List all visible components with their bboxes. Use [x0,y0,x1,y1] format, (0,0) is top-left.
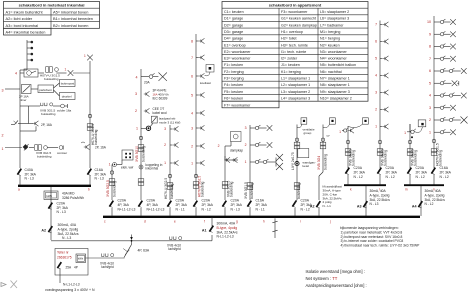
droogkast cluster [363,118,369,124]
svg-text:1: 1 [65,68,67,72]
svg-text:L3= slaapkamer 2: L3= slaapkamer 2 [281,90,310,94]
svg-text:C20A: C20A [301,199,310,203]
svg-text:L2= slaapkamer 1: L2= slaapkamer 1 [281,83,310,87]
svg-text:N - L2: N - L2 [386,175,395,179]
svg-text:3: 3 [429,106,431,110]
svg-text:buisleiding: buisleiding [44,77,59,81]
svg-text:lucht/grid: lucht/grid [168,247,181,251]
svg-text:1: 1 [2,147,4,151]
svg-text:M1= berging: M1= berging [320,30,340,34]
svg-text:H1= overloop: H1= overloop [281,30,303,34]
svg-text:N2= keuken: N2= keuken [320,43,340,47]
svg-text:300mA, 40A: 300mA, 40A [58,223,77,227]
wire: left spine [19,73,21,168]
svg-text:C1= keuken: C1= keuken [224,10,244,14]
svg-text:A2: A2 [41,229,46,233]
svg-text:1: 1 [404,131,406,135]
svg-text:N - L2: N - L2 [440,175,449,179]
svg-text:LIYY 2x0.75: LIYY 2x0.75 [291,152,295,170]
svg-text:6: 6 [375,40,377,44]
svg-text:IEC 60309: IEC 60309 [153,97,168,101]
svg-text:N - L3: N - L3 [62,236,71,240]
svg-text:N7= slaapkamer 1: N7= slaapkamer 1 [320,77,350,81]
svg-text:2P, 16A: 2P, 16A [41,123,53,127]
svg-text:cv: cv [327,134,331,138]
svg-text:buisleiding: buisleiding [41,112,56,116]
svg-text:B1= inkomhal beneden: B1= inkomhal beneden [53,16,93,21]
svg-text:A2: A2 [310,205,315,209]
svg-text:1: 1 [429,130,431,134]
wire: main feeder [51,240,212,242]
svg-text:4: 4 [15,72,17,76]
svg-text:6: 6 [429,69,431,73]
circuit tail below lamp bus [432,139,436,143]
svg-text:2: 2 [191,144,193,148]
svg-text:2P, 16A: 2P, 16A [95,146,107,150]
svg-text:XVB 3G1.5: XVB 3G1.5 [244,182,248,199]
viewer marks [1,283,6,287]
svg-text:XVB 3G4: XVB 3G4 [317,156,321,170]
svg-text:1: 1 [375,125,377,129]
svg-text:A1= inkom buitenlicht: A1= inkom buitenlicht [6,9,44,14]
svg-text:C20A: C20A [386,166,395,170]
svg-text:A5= inkomhal boven: A5= inkomhal boven [53,9,88,14]
svg-text:Isolatie weerstand [mega ohm]: Isolatie weerstand [mega ohm] : [306,269,365,274]
svg-text:schakelbord in meterkast inkom: schakelbord in meterkast inkomhal [19,3,85,8]
svg-text:B-type, 4polig: B-type, 4polig [217,226,238,230]
svg-text:B2= inkomhal boven: B2= inkomhal boven [53,23,88,28]
svg-text:A4: A4 [412,205,417,209]
svg-text:N5= buitenlicht balkon: N5= buitenlicht balkon [320,63,356,67]
feeder 30mA A4 to bus2 [420,186,422,216]
breaker C16A N-L2 [431,168,435,175]
svg-text:F5= keuken: F5= keuken [224,90,243,94]
svg-text:1: 1 [109,163,111,167]
breaker C40A left [17,169,21,176]
svg-text:C16A: C16A [440,166,449,170]
bus: meterkast board [18,185,91,187]
svg-text:timer: timer [20,98,27,102]
svg-text:contour: contour [57,151,67,155]
svg-text:N-L1-L2-L3: N-L1-L2-L3 [63,283,80,287]
row y=106 : zolder [20,105,29,107]
main switch 4P63A [131,241,133,245]
koelkast box [206,65,214,73]
svg-text:3: 3 [245,126,247,130]
RCD A1 300mA B-type [211,235,213,241]
wasmachine socket column [379,21,381,131]
svg-text:F7= woonkamer: F7= woonkamer [224,103,251,107]
branch x=410 [409,124,411,168]
svg-text:3: 3 [135,92,137,96]
svg-text:kabel wcd: kabel wcd [153,111,167,115]
svg-text:N10= slaapkamer 2: N10= slaapkamer 2 [320,96,352,100]
svg-text:XVB 5G2.5: XVB 5G2.5 [106,180,110,197]
svg-text:5: 5 [375,57,377,61]
svg-text:4P: 4P [74,266,78,270]
kWh sub meter [50,187,52,240]
svg-text:A4= inkomhal beneden: A4= inkomhal beneden [6,30,46,35]
svg-text:Net systeem : TT: Net systeem : TT [306,276,338,281]
lift motor branch x=323 [330,118,336,124]
svg-text:2P, 3kA: 2P, 3kA [416,171,428,175]
svg-text:D3= garage: D3= garage [224,30,243,34]
svg-text:buisleiding: buisleiding [230,181,234,197]
svg-text:3kA, 22.5kA²s: 3kA, 22.5kA²s [370,198,391,202]
svg-text:300mA, 40A: 300mA, 40A [217,222,236,226]
svg-text:8: 8 [191,39,193,43]
svg-text:N - L2: N - L2 [354,175,363,179]
svg-text:A1: A1 [202,229,207,233]
socket drops top-left [26,40,28,70]
svg-text:deurbel: deurbel [62,95,72,99]
svg-text:2: 2 [245,143,247,147]
svg-text:L6= slaapkamer 3: L6= slaapkamer 3 [320,17,349,21]
svg-text:2P, 3kA: 2P, 3kA [231,203,243,207]
svg-text:2P, 3kA: 2P, 3kA [256,203,268,207]
svg-text:F1= keuken: F1= keuken [224,63,243,67]
svg-text:N - L3: N - L3 [95,177,104,181]
svg-text:2P, 3kA: 2P, 3kA [202,203,214,207]
bus: sub-bus B [404,184,444,186]
svg-text:F3= woonkamer: F3= woonkamer [281,10,308,14]
svg-text:3kA, 22.5kA²s: 3kA, 22.5kA²s [425,198,446,202]
svg-text:E3= woonkamer: E3= woonkamer [224,57,251,61]
svg-text:1: 1 [84,54,86,58]
svg-text:2P, 3kA: 2P, 3kA [354,171,366,175]
svg-text:4P, 3kA: 4P, 3kA [147,203,159,207]
svg-text:N4= woonkamer: N4= woonkamer [320,57,348,61]
ventilatie groep branch x=297 [301,118,307,124]
svg-text:buisleiding: buisleiding [112,181,116,197]
svg-text:A2= licht zolder: A2= licht zolder [6,16,33,21]
svg-text:I1= tech. ruimte: I1= tech. ruimte [281,50,306,54]
lamp cluster x=250 [249,125,251,200]
svg-text:C20A: C20A [147,199,156,203]
svg-text:buisleiding: buisleiding [37,155,52,159]
svg-text:2: 2 [2,134,4,138]
svg-text:A3: A3 [357,205,362,209]
svg-text:buitenpost: buitenpost [61,82,75,86]
svg-text:N - L2: N - L2 [301,207,310,211]
svg-text:buisleiding: buisleiding [142,146,146,162]
svg-text:2P, 3kA: 2P, 3kA [386,171,398,175]
svg-text:9: 9 [429,32,431,36]
svg-text:N-L1-L2-L3: N-L1-L2-L3 [217,235,234,239]
svg-text:N - L2: N - L2 [416,175,425,179]
svg-text:7: 7 [429,57,431,61]
svg-text:1: 1 [164,161,166,165]
svg-text:j: j [329,220,331,224]
riser below bus2 x=275 [274,218,276,238]
svg-text:D1= garage: D1= garage [224,17,243,21]
svg-text:N3= woonkamer: N3= woonkamer [320,50,348,54]
right sub column x=90 [89,73,91,168]
svg-text:C20A: C20A [354,166,363,170]
svg-text:1: 1 [136,127,138,131]
svg-text:buisleiding: buisleiding [383,150,387,166]
breaker C20A [48,203,52,210]
svg-text:G2= keuken dampkap: G2= keuken dampkap [281,23,317,27]
svg-text:parlofoon: parlofoon [39,88,52,92]
koppeling in inkomhal [139,165,143,169]
svg-text:4P, 63A: 4P, 63A [138,249,150,253]
svg-text:H3= tech. ruimte: H3= tech. ruimte [281,43,308,47]
bus: apartment board [103,216,420,218]
svg-text:buisleiding: buisleiding [351,150,355,166]
svg-text:2: 2 [135,109,137,113]
svg-text:4: 4 [429,94,431,98]
svg-text:N - L1: N - L1 [176,207,185,211]
svg-text:3: 3 [191,126,193,130]
svg-text:F6= keuken: F6= keuken [224,96,243,100]
RCD A2 300mA [48,226,52,233]
svg-text:N - L1: N - L1 [256,207,265,211]
svg-text:ketel: ketel [303,164,310,168]
svg-text:buisleiding: buisleiding [170,183,174,199]
svg-text:N - L1: N - L1 [323,204,332,208]
svg-text:7: 7 [191,56,193,60]
svg-text:C16A: C16A [256,199,265,203]
svg-text:XVB 5G10: XVB 5G10 [135,146,139,162]
svg-text:E1= overloop: E1= overloop [224,43,246,47]
svg-text:1: 1 [339,130,341,134]
svg-text:L4= slaapkamer 3: L4= slaapkamer 3 [281,96,310,100]
svg-text:G1= keuken aanrecht: G1= keuken aanrecht [281,17,316,21]
svg-text:3kA, 22.5kA²s: 3kA, 22.5kA²s [58,232,79,236]
svg-text:2P, 3kA: 2P, 3kA [440,171,452,175]
svg-text:A-type, 2polig: A-type, 2polig [425,193,445,197]
svg-text:4: 4 [191,111,193,115]
svg-text:Aardspreidingsweerstand [ohm]: Aardspreidingsweerstand [ohm] : [306,283,367,288]
svg-text:N - L2: N - L2 [425,202,434,206]
svg-text:C20A: C20A [176,199,185,203]
bus: sub-bus A [344,184,386,186]
svg-text:5: 5 [191,93,193,97]
svg-text:L5= slaapkamer 2: L5= slaapkamer 2 [320,10,349,14]
svg-text:2: 2 [375,108,377,112]
svg-text:N+L1-L2-L3: N+L1-L2-L3 [118,207,136,211]
svg-text:N - L2: N - L2 [202,207,211,211]
lift feeder A2 [316,201,320,208]
svg-text:C20A: C20A [202,199,211,203]
svg-text:D2= garage: D2= garage [224,23,243,27]
svg-text:buisleiding: buisleiding [297,183,301,199]
svg-text:N+L1-L2-L3: N+L1-L2-L3 [147,207,165,211]
branch x=170 sockets [169,125,171,200]
svg-text:A-type, 2polig: A-type, 2polig [370,193,390,197]
svg-text:25A: 25A [66,266,73,270]
svg-text:N9= slaapkamer 3: N9= slaapkamer 3 [320,90,350,94]
svg-text:C20A: C20A [231,199,240,203]
svg-text:buisleiding: buisleiding [250,183,254,199]
svg-text:N - L3: N - L3 [231,207,240,211]
svg-text:2: 2 [218,144,220,148]
svg-text:1: 1 [245,160,247,164]
svg-text:2P, 3kA: 2P, 3kA [176,203,188,207]
svg-text:buisleiding: buisleiding [323,154,327,170]
svg-text:I2= zolder: I2= zolder [281,57,298,61]
svg-text:F3= berging: F3= berging [224,77,244,81]
table: schakelbord in appartement [222,2,368,108]
svg-text:2: 2 [429,118,431,122]
svg-text:3: 3 [2,89,4,93]
svg-text:e: e [174,220,176,224]
svg-text:4P, 3kA: 4P, 3kA [118,203,130,207]
svg-text:buisleiding: buisleiding [413,150,417,166]
branch x=348 [347,126,349,168]
svg-text:E2= woonkamer: E2= woonkamer [224,50,251,54]
svg-text:3kA, 22.5kA²s: 3kA, 22.5kA²s [217,230,238,234]
branch elek. verwarming x=112 [122,150,133,160]
svg-text:3: 3 [164,127,166,131]
svg-text:1: 1 [191,161,193,165]
svg-text:C20A: C20A [416,166,425,170]
svg-text:N6= nachthal: N6= nachthal [320,70,342,74]
socket column x=196 [195,34,197,200]
svg-text:F2= berging: F2= berging [224,70,244,74]
svg-text:7: 7 [375,23,377,27]
svg-text:L7= badkamer: L7= badkamer [320,23,344,27]
svg-text:F4= keuken: F4= keuken [224,83,243,87]
svg-text:L1= slaapkamer 1: L1= slaapkamer 1 [281,77,310,81]
svg-text:zolder 16a: zolder 16a [57,109,72,113]
svg-text:kWh: kWh [47,194,53,198]
svg-text:H2= toilet: H2= toilet [281,37,297,41]
svg-text:8: 8 [429,45,431,49]
svg-text:A3= bord inkomhal: A3= bord inkomhal [6,23,39,28]
svg-text:f: f [204,220,205,224]
wire: right lamp bus [433,16,435,168]
table: schakelbord in meterkast inkomhal [4,2,100,36]
svg-text:schakelbord in appartement: schakelbord in appartement [269,3,322,8]
svg-text:20A: 20A [144,80,151,84]
svg-text:J1= keuken: J1= keuken [281,63,300,67]
svg-text:2: 2 [164,143,166,147]
svg-text:d: d [144,220,146,224]
branch x=380 [379,130,381,168]
svg-text:30mA, 40A: 30mA, 40A [370,189,387,193]
svg-text:buisleiding: buisleiding [439,150,443,166]
svg-text:mode 3 (11 kW): mode 3 (11 kW) [159,120,180,124]
svg-text:10: 10 [427,20,431,24]
svg-text:Teller nr: Teller nr [57,251,70,255]
svg-text:N1= berging: N1= berging [320,37,340,41]
feeder 30mA A3 to bus2 [365,186,367,216]
svg-text:H07V-U 3G2.5: H07V-U 3G2.5 [164,178,168,199]
svg-text:C20A: C20A [118,199,127,203]
svg-text:buisleiding: buisleiding [201,181,205,197]
svg-text:dampkap: dampkap [230,149,243,153]
svg-text:lucht/grid: lucht/grid [101,265,114,269]
svg-text:kWh: kWh [78,257,84,261]
svg-text:h: h [263,220,265,224]
svg-text:a: a [18,188,20,192]
svg-text:koelkast: koelkast [200,81,211,85]
svg-text:elek. vwr: elek. vwr [121,166,133,170]
svg-text:3286 Puls/kWh: 3286 Puls/kWh [62,196,84,200]
svg-text:4: 4 [135,76,137,80]
svg-text:N - L3: N - L3 [57,210,66,214]
svg-text:4) thermostaat naar tech. ruim: 4) thermostaat naar tech. ruimte: LIYY-O… [341,243,421,247]
svg-text:voedingsspanning 3 x 400V + N: voedingsspanning 3 x 400V + N [45,288,95,292]
svg-text:N - L3: N - L3 [25,177,34,181]
svg-text:m: m [405,188,408,192]
svg-text:K1= berging: K1= berging [281,70,301,74]
svg-text:6: 6 [191,74,193,78]
svg-text:N8= slaapkamer 1: N8= slaapkamer 1 [320,83,350,87]
svg-text:g: g [236,220,238,224]
svg-text:30mA, 40A: 30mA, 40A [425,189,442,193]
svg-text:inkomhal: inkomhal [146,167,159,171]
main inkomhal column x=141 [140,69,142,200]
svg-text:b: b [88,188,90,192]
breaker C16A right [87,169,91,176]
svg-text:groep: groep [304,131,312,135]
svg-text:buisleiding: buisleiding [94,129,98,145]
svg-text:3: 3 [375,91,377,95]
svg-text:A-type, 2polig: A-type, 2polig [58,227,79,231]
svg-text:N - L3: N - L3 [370,202,379,206]
svg-text:4: 4 [375,74,377,78]
meter: teller [55,249,88,276]
svg-text:5: 5 [429,81,431,85]
svg-text:D4= garage: D4= garage [224,37,243,41]
svg-text:26636175: 26636175 [57,256,72,260]
